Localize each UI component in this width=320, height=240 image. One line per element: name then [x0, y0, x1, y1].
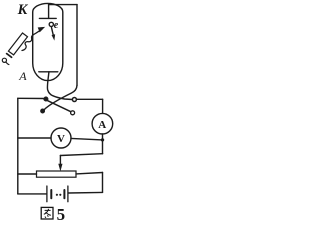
wire voltmeter left to rail — [18, 137, 51, 139]
wire TR to ammeter branch — [77, 98, 103, 100]
electrode A plate — [39, 71, 58, 73]
wire slider feed horizontal — [60, 154, 102, 156]
wire top horizontal run — [49, 4, 77, 6]
lamp bulb tail — [6, 62, 9, 65]
caption 图 5 — [41, 207, 53, 219]
lamp (light source, slanted housing) — [8, 33, 27, 55]
battery pack — [46, 186, 48, 202]
wire down to ammeter — [102, 99, 104, 113]
electron e (ring) — [49, 22, 53, 26]
svg-text:A: A — [98, 119, 106, 131]
ammeter A — [92, 113, 113, 134]
wire right vertical (K lead) — [76, 5, 78, 86]
node BL (switch terminal) — [41, 109, 45, 113]
wire from K plate up through envelope — [48, 5, 50, 19]
rheostat slider arrow — [59, 156, 61, 166]
resistor (rheostat) body — [37, 171, 77, 177]
svg-text:A: A — [18, 69, 27, 83]
left rail vertical — [17, 98, 19, 194]
node TL (switch terminal) — [44, 97, 48, 101]
node BR (switch contact, open circle) — [71, 111, 75, 115]
electrode K plate — [39, 17, 56, 19]
wire battery right — [68, 191, 102, 194]
wire battery left — [18, 193, 47, 195]
lamp base bar — [7, 54, 12, 58]
wire tube stem to switch terminal TR — [47, 72, 72, 100]
svg-text:5: 5 — [57, 205, 66, 224]
wire right vertical down to battery — [102, 173, 104, 193]
svg-text:V: V — [57, 133, 65, 145]
node junction of voltmeter wire and ammeter wire — [101, 138, 104, 141]
wire ammeter bottom down — [102, 134, 104, 154]
light ray wavy arrow — [22, 30, 41, 50]
node TR (switch contact) — [72, 98, 76, 102]
wire rheostat left to rail — [18, 173, 37, 175]
svg-text:e: e — [54, 20, 59, 31]
phototube glass envelope — [33, 3, 63, 80]
voltmeter V — [51, 128, 71, 148]
wire voltmeter right — [71, 138, 103, 140]
wire rheostat right — [76, 173, 103, 174]
wire K lead curving down-left to switch terminal BL — [44, 85, 77, 109]
electron motion arrow — [52, 28, 54, 37]
wire left rail horizontal to TL — [18, 97, 44, 99]
switch blade TL to BR — [47, 100, 71, 111]
lamp base bulb circle — [2, 58, 6, 62]
svg-text:K: K — [17, 2, 29, 18]
